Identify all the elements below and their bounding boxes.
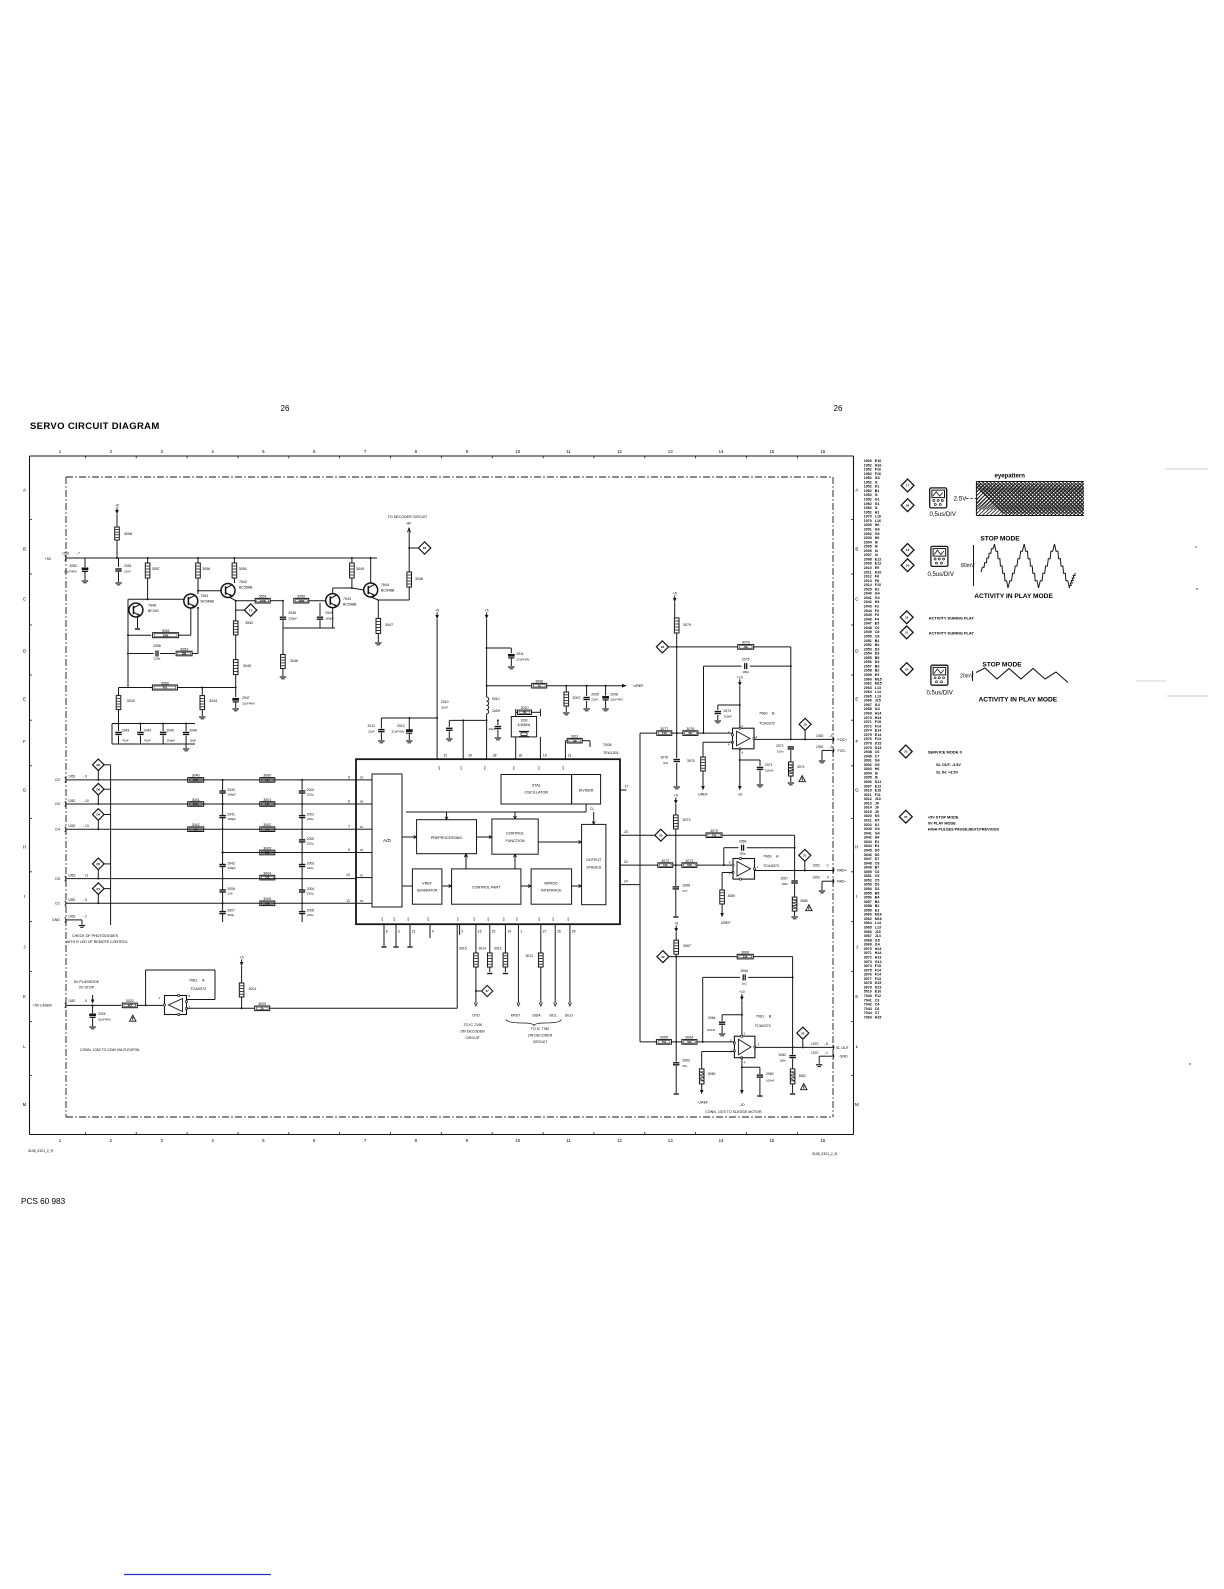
svg-text:A/D: A/D: [383, 838, 391, 843]
svg-text:ACTIVITY DURING PLAY: ACTIVITY DURING PLAY: [929, 615, 975, 620]
svg-text:BC548B: BC548B: [381, 589, 395, 593]
svg-text:3066: 3066: [741, 950, 749, 954]
svg-text:2056: 2056: [153, 644, 161, 648]
svg-text:26: 26: [281, 404, 290, 413]
svg-text:1070: 1070: [811, 1051, 819, 1055]
svg-text:80mV: 80mV: [961, 563, 975, 569]
svg-text:28: 28: [493, 754, 497, 758]
svg-text:1052: 1052: [813, 876, 821, 880]
svg-text:2004: 2004: [307, 887, 315, 891]
svg-text:180p: 180p: [742, 670, 749, 674]
svg-text:15k: 15k: [743, 955, 748, 959]
svg-text:20mV: 20mV: [960, 674, 974, 680]
svg-text:220p: 220p: [307, 817, 314, 821]
svg-text:FOC+: FOC+: [838, 738, 848, 742]
svg-text:3075: 3075: [687, 759, 695, 763]
svg-text:2005: 2005: [307, 909, 315, 913]
svg-text:SERVO CIRCUIT DIAGRAM: SERVO CIRCUIT DIAGRAM: [30, 421, 160, 432]
svg-text:20: 20: [659, 833, 663, 837]
svg-text:7060: 7060: [763, 855, 771, 859]
svg-text:- 10: - 10: [83, 799, 89, 803]
svg-text:B: B: [769, 1015, 772, 1019]
svg-text:1052: 1052: [62, 552, 70, 556]
svg-text:1n6: 1n6: [228, 892, 233, 896]
svg-text:18: 18: [518, 754, 522, 758]
svg-text:1M: 1M: [523, 710, 527, 714]
svg-text:23: 23: [904, 750, 908, 754]
svg-text:GENERATOR: GENERATOR: [417, 889, 438, 893]
svg-text:18pF: 18pF: [190, 739, 197, 743]
svg-text:2051: 2051: [124, 564, 132, 568]
svg-text:3001: 3001: [263, 798, 271, 802]
svg-text:WITH R LED OF REMOTE CONTROL: WITH R LED OF REMOTE CONTROL: [66, 940, 128, 944]
svg-text:OSCILLATOR: OSCILLATOR: [524, 791, 548, 795]
svg-text:2068: 2068: [683, 884, 691, 888]
svg-text:3047: 3047: [385, 623, 393, 627]
svg-text:3012: 3012: [525, 954, 533, 958]
svg-text:2062: 2062: [778, 1053, 786, 1057]
svg-text:3010: 3010: [521, 706, 529, 710]
svg-text:D2: D2: [360, 848, 364, 852]
svg-text:100nF: 100nF: [724, 715, 733, 719]
svg-text:SL IN: +3.5V: SL IN: +3.5V: [936, 770, 958, 774]
svg-text:23: 23: [801, 1031, 805, 1035]
svg-text:16: 16: [820, 449, 825, 454]
svg-text:BF240: BF240: [148, 609, 159, 613]
svg-text:+10: +10: [739, 990, 745, 994]
svg-text:TCA0372: TCA0372: [755, 1024, 771, 1028]
svg-text:3004: 3004: [263, 871, 271, 875]
svg-text:15k: 15k: [712, 833, 717, 837]
svg-text:13: 13: [668, 1138, 673, 1143]
svg-text:22nF: 22nF: [441, 706, 448, 710]
svg-text:2063: 2063: [682, 1059, 690, 1063]
svg-text:100nF: 100nF: [707, 1028, 716, 1032]
svg-text:10k: 10k: [265, 802, 270, 806]
svg-text:10: 10: [346, 873, 350, 877]
svg-text:3041: 3041: [192, 798, 200, 802]
svg-text:5010: 5010: [492, 697, 500, 701]
svg-text:M: M: [23, 1102, 27, 1107]
svg-text:TO IC 7780: TO IC 7780: [531, 1027, 550, 1031]
svg-text:FUNCTION: FUNCTION: [505, 839, 524, 843]
svg-text:3062: 3062: [799, 1074, 807, 1078]
svg-text:14: 14: [719, 449, 724, 454]
svg-text:+10: +10: [737, 675, 743, 679]
svg-text:2066: 2066: [740, 969, 748, 973]
svg-text:2949: 2949: [325, 611, 333, 615]
svg-text:- 1: - 1: [824, 1051, 828, 1055]
svg-text:D4: D4: [96, 813, 100, 817]
svg-text:3064: 3064: [685, 1036, 693, 1040]
svg-text:20: 20: [906, 563, 910, 567]
svg-text:4k7: 4k7: [688, 731, 693, 735]
svg-text:7: 7: [348, 825, 350, 829]
svg-text:100pF: 100pF: [167, 739, 176, 743]
svg-text:0V PLAY MODE: 0V PLAY MODE: [928, 821, 956, 825]
svg-text:6: 6: [348, 800, 350, 804]
svg-text:0,5us/DIV: 0,5us/DIV: [930, 512, 956, 518]
svg-text:2001: 2001: [307, 813, 315, 817]
svg-text:13: 13: [568, 754, 572, 758]
svg-text:7061: 7061: [189, 979, 197, 983]
svg-text:2u2H: 2u2H: [492, 709, 501, 713]
svg-text:560p: 560p: [228, 913, 235, 917]
svg-text:2069: 2069: [739, 839, 747, 843]
svg-text:FOC-: FOC-: [838, 749, 848, 753]
svg-text:TO IC 7106: TO IC 7106: [463, 1023, 482, 1027]
svg-text:120k: 120k: [193, 778, 199, 782]
svg-text:10k: 10k: [265, 827, 270, 831]
svg-text:ON DECODER: ON DECODER: [461, 1030, 486, 1034]
svg-text:2046: 2046: [190, 729, 198, 733]
svg-text:3005: 3005: [263, 897, 271, 901]
svg-text:25: 25: [572, 930, 576, 934]
svg-text:D4: D4: [360, 800, 364, 804]
svg-text:100nF: 100nF: [765, 769, 774, 773]
svg-text:UREF: UREF: [633, 684, 644, 688]
svg-text:2942: 2942: [228, 862, 236, 866]
svg-text:UREF: UREF: [698, 1101, 709, 1105]
svg-text:10k: 10k: [663, 863, 668, 867]
svg-text:33n: 33n: [682, 1064, 687, 1068]
svg-text:BC548B: BC548B: [343, 603, 357, 607]
svg-text:D1: D1: [360, 825, 364, 829]
svg-text:436R: 436R: [298, 599, 304, 603]
svg-text:PCS 60 983: PCS 60 983: [21, 1197, 66, 1206]
svg-text:3002: 3002: [263, 823, 271, 827]
svg-text:3040: 3040: [192, 774, 200, 778]
svg-text:3059: 3059: [161, 681, 169, 685]
svg-text:3045: 3045: [243, 664, 251, 668]
svg-text:2009: 2009: [591, 693, 599, 697]
svg-text:eyepattern: eyepattern: [995, 474, 1026, 480]
svg-text:3050: 3050: [297, 595, 305, 599]
svg-text:100n: 100n: [777, 750, 784, 754]
svg-text:VREF: VREF: [422, 882, 432, 886]
svg-text:12: 12: [617, 449, 622, 454]
svg-text:K: K: [855, 994, 858, 999]
svg-text:19: 19: [803, 723, 807, 727]
svg-text:22uF/40V: 22uF/40V: [64, 570, 77, 574]
svg-text:67: 67: [486, 989, 490, 993]
svg-text:D5: D5: [55, 877, 60, 881]
svg-text:47k: 47k: [163, 686, 168, 690]
svg-text:ACTIVITY IN PLAY MODE: ACTIVITY IN PLAY MODE: [979, 697, 1058, 704]
svg-text:2075: 2075: [742, 658, 750, 662]
svg-text:3069: 3069: [728, 894, 736, 898]
svg-text:0,5us/DIV: 0,5us/DIV: [928, 572, 954, 578]
svg-text:D1: D1: [96, 887, 100, 891]
svg-text:13: 13: [668, 449, 673, 454]
svg-text:-10: -10: [737, 793, 742, 797]
svg-text:2006: 2006: [228, 887, 236, 891]
svg-text:3068: 3068: [800, 899, 808, 903]
svg-text:3060: 3060: [708, 1072, 716, 1076]
svg-text:14: 14: [507, 930, 511, 934]
svg-text:2011: 2011: [517, 652, 524, 656]
svg-text:2043: 2043: [122, 729, 130, 733]
svg-text:7642: 7642: [239, 580, 247, 584]
svg-text:10: 10: [515, 449, 520, 454]
svg-text:3043: 3043: [127, 699, 135, 703]
svg-text:CONTROL: CONTROL: [506, 832, 524, 836]
svg-text:22: 22: [661, 955, 665, 959]
svg-text:7060: 7060: [759, 712, 767, 716]
svg-text:HIGH PULSES PAUSE,NEXT,PREVIOU: HIGH PULSES PAUSE,NEXT,PREVIOUS: [928, 827, 999, 831]
svg-text:3074: 3074: [797, 765, 805, 769]
svg-text:2010: 2010: [441, 700, 449, 704]
svg-text:22uF/40V: 22uF/40V: [391, 730, 404, 734]
svg-text:2044: 2044: [144, 729, 152, 733]
svg-text:2007: 2007: [228, 909, 236, 913]
svg-text:2: 2: [461, 930, 463, 934]
svg-text:TO DECODER CIRCUIT: TO DECODER CIRCUIT: [388, 515, 428, 519]
svg-text:750: 750: [662, 1040, 667, 1044]
svg-text:19: 19: [543, 754, 547, 758]
svg-text:CIRCUIT: CIRCUIT: [533, 1040, 548, 1044]
svg-text:2003: 2003: [307, 862, 315, 866]
svg-text:+5: +5: [240, 955, 244, 959]
svg-text:3015: 3015: [459, 947, 467, 951]
svg-text:TCA0372: TCA0372: [763, 864, 779, 868]
svg-text:66: 66: [423, 546, 427, 550]
svg-text:B: B: [855, 547, 858, 552]
svg-text:27: 27: [543, 930, 547, 934]
svg-text:1052: 1052: [68, 873, 76, 877]
svg-text:DIVIDER: DIVIDER: [579, 789, 594, 793]
svg-text:F: F: [855, 739, 858, 744]
svg-text:I: I: [24, 894, 25, 899]
svg-text:GND: GND: [52, 918, 60, 922]
svg-text:3060: 3060: [263, 774, 271, 778]
svg-text:TCA0372: TCA0372: [190, 987, 206, 991]
svg-text:3021: 3021: [249, 987, 257, 991]
svg-text:3020: 3020: [258, 1002, 266, 1006]
svg-text:1052: 1052: [68, 799, 76, 803]
svg-text:XTAL: XTAL: [532, 784, 541, 788]
svg-text:3070: 3070: [710, 829, 718, 833]
svg-text:11: 11: [566, 449, 571, 454]
svg-text:17: 17: [906, 484, 910, 488]
svg-text:3072: 3072: [661, 859, 669, 863]
svg-text:330k: 330k: [163, 633, 169, 637]
svg-text:STOP MODE: STOP MODE: [982, 662, 1022, 669]
svg-text:120k: 120k: [193, 802, 199, 806]
svg-text:67: 67: [904, 815, 908, 819]
svg-text:15k: 15k: [744, 645, 749, 649]
svg-text:+5: +5: [674, 793, 678, 797]
svg-text:21: 21: [905, 631, 909, 635]
svg-text:TEA1301: TEA1301: [603, 751, 619, 755]
svg-text:2013: 2013: [397, 724, 405, 728]
svg-text:SILD: SILD: [565, 1014, 573, 1018]
svg-text:3067: 3067: [683, 944, 691, 948]
svg-text:3052: 3052: [245, 621, 253, 625]
svg-text:D: D: [855, 649, 858, 654]
svg-text:1070: 1070: [811, 1042, 819, 1046]
svg-text:220p: 220p: [154, 657, 161, 661]
svg-text:RAD-: RAD-: [837, 880, 847, 884]
svg-text:10k: 10k: [265, 901, 270, 905]
svg-text:1052: 1052: [68, 898, 76, 902]
svg-text:2067: 2067: [780, 877, 788, 881]
svg-text:16: 16: [478, 930, 482, 934]
svg-text:- 7: - 7: [76, 552, 80, 556]
svg-text:2074: 2074: [724, 709, 732, 713]
svg-text:10k: 10k: [265, 851, 270, 855]
svg-text:3055: 3055: [239, 567, 247, 571]
svg-text:3078: 3078: [742, 641, 750, 645]
svg-text:D5: D5: [96, 862, 100, 866]
svg-text:- 11: - 11: [83, 873, 89, 877]
svg-text:SICL: SICL: [549, 1014, 557, 1018]
svg-text:TCA0372: TCA0372: [759, 722, 775, 726]
svg-text:- 2: - 2: [829, 745, 833, 749]
svg-text:D4: D4: [55, 827, 60, 831]
svg-text:5V PLAYMODE: 5V PLAYMODE: [74, 980, 100, 984]
svg-text:2948: 2948: [288, 611, 296, 615]
svg-text:3073: 3073: [683, 818, 691, 822]
svg-text:186pF: 186pF: [228, 793, 237, 797]
svg-text:7008: 7008: [603, 743, 611, 747]
svg-text:9: 9: [348, 848, 350, 852]
svg-text:4k7: 4k7: [128, 1004, 133, 1008]
svg-text:16: 16: [820, 1138, 825, 1143]
svg-text:+5: +5: [115, 503, 119, 507]
svg-text:SL OUT: -3.5V: SL OUT: -3.5V: [936, 763, 961, 767]
svg-text:1052: 1052: [68, 824, 76, 828]
svg-text:7644: 7644: [381, 583, 389, 587]
svg-text:22: 22: [905, 667, 909, 671]
svg-text:STOP MODE: STOP MODE: [980, 536, 1020, 543]
svg-text:3071: 3071: [685, 859, 693, 863]
svg-text:A: A: [855, 488, 858, 493]
svg-text:11: 11: [566, 1138, 571, 1143]
svg-text:-10: -10: [739, 1103, 744, 1107]
svg-text:11: 11: [346, 899, 350, 903]
svg-text:2025: 2025: [98, 1012, 106, 1016]
svg-text:8: 8: [386, 930, 388, 934]
svg-text:1052: 1052: [68, 915, 76, 919]
svg-text:56k: 56k: [194, 827, 199, 831]
svg-text:180pF: 180pF: [228, 817, 237, 821]
svg-text:2947: 2947: [242, 696, 250, 700]
svg-text:+5: +5: [435, 608, 439, 612]
svg-text:UREF: UREF: [721, 921, 732, 925]
svg-text:100nF: 100nF: [766, 1079, 775, 1083]
svg-text:3053: 3053: [180, 647, 188, 651]
svg-text:330pF: 330pF: [228, 866, 237, 870]
svg-text:3007: 3007: [573, 696, 581, 700]
svg-text:2014: 2014: [489, 727, 496, 731]
svg-text:7641: 7641: [201, 594, 209, 598]
svg-text:3022: 3022: [126, 999, 134, 1003]
svg-text:21: 21: [412, 930, 416, 934]
svg-text:H15: H15: [875, 1015, 882, 1019]
svg-text:2045: 2045: [167, 729, 175, 733]
svg-text:220p: 220p: [307, 866, 314, 870]
svg-text:- 5: - 5: [83, 999, 87, 1003]
svg-text:- 3: - 3: [829, 734, 833, 738]
svg-text:220p: 220p: [307, 793, 314, 797]
svg-text:INTERFACE: INTERFACE: [541, 889, 562, 893]
svg-text:15: 15: [769, 1138, 774, 1143]
svg-text:26: 26: [557, 930, 561, 934]
svg-text:7061: 7061: [756, 1015, 764, 1019]
svg-text:24: 24: [624, 880, 628, 884]
svg-text:2072: 2072: [776, 744, 784, 748]
svg-text:7648: 7648: [148, 604, 156, 608]
svg-text:22nF: 22nF: [591, 698, 598, 702]
svg-text:- 8: - 8: [824, 1042, 828, 1046]
svg-text:2n7: 2n7: [683, 889, 688, 893]
svg-text:ACTIVITY IN PLAY MODE: ACTIVITY IN PLAY MODE: [974, 593, 1053, 600]
svg-text:1: 1: [520, 930, 522, 934]
svg-text:CONN. 1052 TO CDM VIA FLEXFOIL: CONN. 1052 TO CDM VIA FLEXFOIL: [80, 1048, 140, 1052]
svg-text:CHECK OF PHOTODIODES: CHECK OF PHOTODIODES: [72, 934, 119, 938]
svg-text:39k: 39k: [182, 652, 187, 656]
svg-text:100n: 100n: [779, 1059, 786, 1063]
svg-text:2041: 2041: [228, 813, 236, 817]
svg-text:2.5V: 2.5V: [954, 496, 968, 503]
svg-text:- 2: - 2: [83, 915, 87, 919]
svg-text:3079: 3079: [683, 623, 691, 627]
svg-text:BC548B: BC548B: [201, 600, 215, 604]
svg-text:1000: 1000: [520, 719, 527, 723]
svg-text:3042: 3042: [192, 823, 200, 827]
svg-text:1052: 1052: [68, 999, 76, 1003]
svg-text:47pF: 47pF: [122, 739, 129, 743]
svg-text:3058: 3058: [124, 532, 132, 536]
svg-text:1052: 1052: [816, 734, 824, 738]
svg-text:3057: 3057: [152, 567, 160, 571]
svg-text:2012: 2012: [367, 724, 375, 728]
svg-text:3076: 3076: [686, 727, 694, 731]
svg-text:19: 19: [905, 616, 909, 620]
svg-text:3048: 3048: [415, 577, 423, 581]
svg-text:CIRCUIT: CIRCUIT: [465, 1036, 480, 1040]
svg-text:3013: 3013: [494, 947, 502, 951]
svg-text:220p: 220p: [307, 842, 314, 846]
svg-text:1052: 1052: [813, 864, 821, 868]
svg-text:- 4: - 4: [825, 876, 829, 880]
svg-text:0,5us/DIV: 0,5us/DIV: [927, 691, 953, 697]
svg-text:ACTIVITY DURING PLAY: ACTIVITY DURING PLAY: [929, 630, 975, 635]
svg-text:H: H: [23, 845, 26, 850]
svg-text:10k: 10k: [265, 876, 270, 880]
svg-text:BC558B: BC558B: [239, 586, 253, 590]
svg-text:H: H: [855, 845, 858, 850]
svg-text:CONN. 1070 TO SLEDGE MOTOR: CONN. 1070 TO SLEDGE MOTOR: [705, 1110, 762, 1114]
svg-text:MPROC: MPROC: [544, 882, 558, 886]
svg-text:CL: CL: [590, 807, 594, 811]
svg-text:HF: HF: [407, 522, 413, 526]
svg-text:1052: 1052: [68, 775, 76, 779]
svg-text:3011: 3011: [571, 735, 579, 739]
svg-text:17: 17: [249, 608, 253, 612]
svg-text:23: 23: [624, 830, 628, 834]
svg-text:8,46MHz: 8,46MHz: [518, 723, 531, 727]
svg-text:648: 648: [687, 863, 692, 867]
svg-text:OUTPUT: OUTPUT: [586, 858, 602, 862]
svg-text:180p: 180p: [739, 852, 746, 856]
svg-text:12: 12: [443, 754, 447, 758]
svg-text:3006: 3006: [535, 680, 543, 684]
svg-text:220p: 220p: [307, 892, 314, 896]
svg-text:22: 22: [624, 860, 628, 864]
svg-text:22uF/40V: 22uF/40V: [98, 1018, 111, 1022]
